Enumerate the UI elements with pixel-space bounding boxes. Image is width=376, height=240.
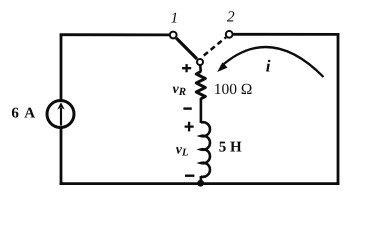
current source arrow bbox=[60, 108, 62, 126]
wire top-right horizontal (switch terminal 2 to top-right corner) bbox=[233, 33, 339, 36]
switch terminal 1 node bbox=[170, 32, 177, 39]
wire inductor bottom to node bbox=[200, 176, 203, 184]
resistor R 100 ohm zigzag bbox=[196, 72, 205, 99]
wire pole to resistor top bbox=[199, 65, 202, 72]
junction node dot bbox=[197, 180, 204, 187]
svg-text:5 H: 5 H bbox=[219, 140, 242, 156]
wire left vertical top (source to top-left corner) bbox=[60, 35, 63, 100]
svg-text:1: 1 bbox=[171, 10, 179, 26]
wire right vertical bbox=[337, 33, 340, 185]
wire resistor bottom to inductor top bbox=[200, 98, 203, 123]
current direction arrow i arc bbox=[221, 47, 324, 77]
svg-text:A: A bbox=[24, 105, 35, 121]
switch blade (closed to terminal 1) bbox=[176, 38, 197, 59]
wire top-left horizontal (corner to switch terminal 1) bbox=[60, 33, 169, 36]
inductor L 5H coils bbox=[201, 122, 210, 177]
current source I1 6A circle bbox=[47, 101, 74, 128]
polarity - of vR bbox=[183, 107, 191, 109]
wire left vertical bottom (source to bottom-left corner) bbox=[60, 129, 63, 185]
svg-text:2: 2 bbox=[227, 9, 235, 26]
polarity + of vR bbox=[182, 64, 191, 72]
wire bottom horizontal bbox=[60, 182, 340, 185]
switch dashed throw to terminal 2 bbox=[204, 37, 226, 55]
switch terminal 2 node bbox=[226, 31, 233, 38]
svg-text:6: 6 bbox=[11, 105, 19, 121]
switch pole node bbox=[197, 59, 203, 65]
polarity - of vL bbox=[185, 174, 194, 176]
svg-text:100Ω: 100Ω bbox=[214, 81, 253, 98]
svg-text:i: i bbox=[266, 57, 271, 76]
polarity + of vL bbox=[185, 122, 194, 132]
arrowhead of i bbox=[217, 62, 227, 72]
